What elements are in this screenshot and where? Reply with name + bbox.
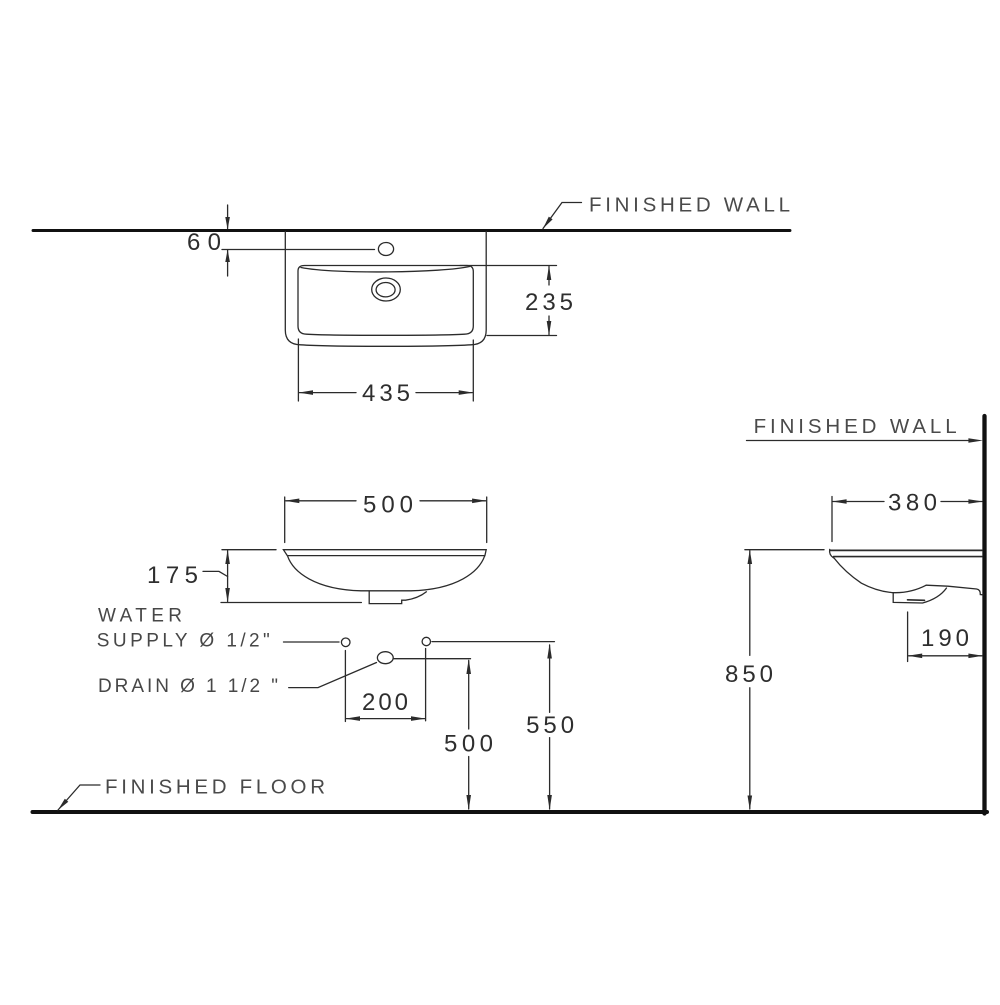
supply hole right xyxy=(422,637,430,645)
basin rim (front view) xyxy=(283,550,486,556)
basin outer shell (top view) xyxy=(285,232,486,347)
dimension 850 extension line xyxy=(745,549,824,551)
dimension 550 vertical line xyxy=(549,645,551,712)
svg-text:FINISHED WALL: FINISHED WALL xyxy=(589,194,790,217)
svg-text:190: 190 xyxy=(921,625,969,652)
underline with arrow xyxy=(747,440,976,442)
dimension 175 extension lines xyxy=(222,549,276,551)
svg-text:235: 235 xyxy=(525,289,573,316)
drain tab (front view) xyxy=(369,591,426,604)
side view drain tab xyxy=(893,588,946,603)
svg-text:60: 60 xyxy=(187,229,221,256)
leader FINISHED WALL (top) xyxy=(543,203,582,229)
extension line 60 xyxy=(222,249,375,251)
extension to 550 dim xyxy=(432,641,554,643)
side view rim front tick xyxy=(830,549,834,557)
dimension 175 line and arrows xyxy=(227,551,229,602)
svg-text:SUPPLY Ø 1/2": SUPPLY Ø 1/2" xyxy=(97,631,270,652)
dimension 60 lines xyxy=(227,205,229,229)
dimension 190 extension line xyxy=(907,612,909,662)
dimension 175 leader xyxy=(203,571,228,576)
dimension 200 line and arrows xyxy=(346,718,424,720)
svg-text:200: 200 xyxy=(362,689,408,716)
supply leader line xyxy=(284,641,340,643)
leader FINISHED FLOOR xyxy=(58,785,100,810)
svg-text:FINISHED WALL: FINISHED WALL xyxy=(754,415,957,438)
dimension 380 extension line xyxy=(831,497,833,542)
svg-text:850: 850 xyxy=(725,661,773,688)
dimension 500 vertical line xyxy=(468,661,470,730)
side view rim second line xyxy=(834,556,983,558)
svg-text:DRAIN Ø 1 1/2 ": DRAIN Ø 1 1/2 " xyxy=(98,676,278,697)
side view rim top line xyxy=(830,549,982,551)
overflow inner ring (top view) xyxy=(376,283,395,297)
wall line (side view, vertical) xyxy=(982,416,986,814)
dimension 200 extension lines xyxy=(344,651,346,722)
extension to 500 dim xyxy=(393,658,470,660)
side view drain inner line xyxy=(908,599,925,602)
svg-text:175: 175 xyxy=(147,562,198,589)
dimension 850 line and arrows xyxy=(749,551,751,656)
svg-text:550: 550 xyxy=(526,712,574,739)
dimension 500 (front view width) extension lines xyxy=(284,497,286,543)
dimension 500 line and arrows xyxy=(286,500,356,502)
svg-text:380: 380 xyxy=(888,490,937,517)
drain hole (front view) xyxy=(377,652,393,664)
svg-text:500: 500 xyxy=(363,492,413,519)
svg-text:FINISHED FLOOR: FINISHED FLOOR xyxy=(105,776,325,799)
basin bowl (front view) xyxy=(288,556,485,591)
faucet hole (top view) xyxy=(378,243,393,256)
dimension 380 line and arrows xyxy=(833,501,884,503)
dimension 235 line and arrows xyxy=(548,267,550,286)
svg-text:435: 435 xyxy=(362,380,410,407)
svg-text:WATER: WATER xyxy=(98,605,182,626)
side view bowl curve xyxy=(834,558,926,593)
dimension 190 line and arrows xyxy=(909,655,982,657)
side view underside line xyxy=(926,585,983,595)
wall line (top view, finished wall) xyxy=(33,229,790,232)
dimension 435 extension lines xyxy=(297,339,299,401)
drain leader xyxy=(289,663,377,688)
dimension 435 line and arrows xyxy=(299,392,356,394)
basin interior arc (top view) xyxy=(301,267,470,272)
floor line xyxy=(33,810,988,814)
svg-text:500: 500 xyxy=(444,731,493,758)
overflow outer ring (top view) xyxy=(372,278,401,301)
dimension 235 extension lines xyxy=(460,265,557,267)
basin inner rim (top view) xyxy=(298,266,473,336)
supply hole left xyxy=(341,638,350,647)
